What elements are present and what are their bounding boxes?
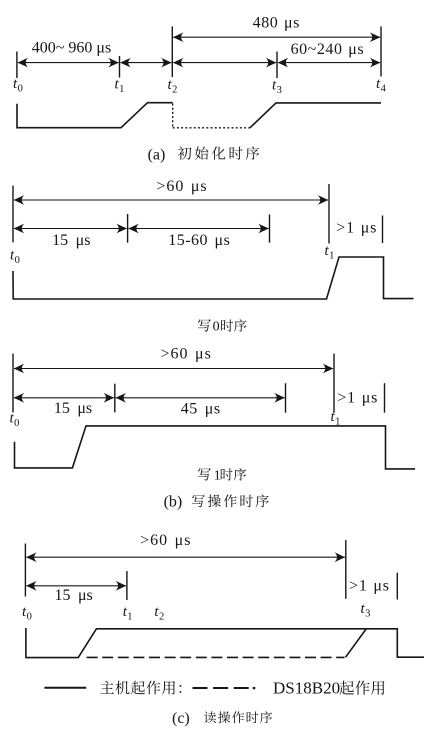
- svg-text:0: 0: [14, 418, 19, 429]
- label 15us (read): [54, 587, 92, 604]
- caption write0 chars shixu: [221, 319, 246, 331]
- arrow 15us (w1): [14, 393, 114, 403]
- tick recovery mark (read): [396, 573, 398, 600]
- svg-text:15 μs: 15 μs: [54, 400, 92, 417]
- wire read dashed DS18B20 low: [87, 656, 345, 658]
- legend solid line sample (master): [44, 687, 86, 689]
- label >60us (w1): [161, 346, 212, 363]
- label >1us (w0): [336, 220, 377, 237]
- arrow 45us (w1): [116, 393, 285, 403]
- label 400~960us (init): [32, 39, 111, 56]
- label 15-60us (w0): [168, 232, 230, 249]
- wire read waveform master (solid): [26, 628, 424, 658]
- svg-text:>60 μs: >60 μs: [156, 178, 207, 195]
- svg-text:1: 1: [214, 469, 221, 484]
- caption write0 digit 0: [213, 320, 220, 335]
- tick t3 (init): [276, 52, 278, 79]
- legend label zhuji qizuoyong: [100, 681, 181, 695]
- svg-text:60~240 μs: 60~240 μs: [291, 41, 365, 58]
- tick 45us mark (w1): [285, 383, 287, 413]
- svg-text:0: 0: [18, 84, 23, 95]
- arrow t2-t3 (init): [173, 58, 276, 68]
- svg-text:DS18B20: DS18B20: [273, 679, 340, 698]
- svg-text:4: 4: [381, 84, 387, 95]
- label 480us (init): [253, 15, 300, 32]
- tick 15us mark (w1): [114, 384, 116, 413]
- label >1us (read): [349, 578, 390, 595]
- node label t2 (read): [154, 604, 164, 623]
- label 60~240us (init): [291, 41, 365, 58]
- tick t0 (init): [16, 52, 18, 79]
- node label t0 (init): [13, 76, 23, 95]
- tick t2 (init): [171, 26, 173, 77]
- svg-text:(b): (b): [164, 494, 183, 511]
- node label t4 (init): [376, 76, 387, 95]
- tick t0 (w0): [12, 186, 14, 243]
- svg-text:>1 μs: >1 μs: [336, 220, 377, 237]
- tick t3 (read): [345, 540, 347, 599]
- arrow >60us (w0): [14, 195, 329, 205]
- arrow 60~240us t3-t4 (init): [278, 58, 381, 68]
- caption write0 char xie: [198, 319, 211, 332]
- tick 15-60us mark (w0): [269, 215, 271, 243]
- label 15us (w0): [52, 232, 90, 249]
- label 15us (w1): [54, 400, 92, 417]
- label >60us (w0): [156, 178, 207, 195]
- svg-text:(a): (a): [148, 146, 166, 163]
- svg-text:1: 1: [119, 84, 124, 95]
- tick recovery mark (w0): [382, 216, 384, 244]
- label >60us (read): [140, 532, 191, 549]
- svg-text:>1 μs: >1 μs: [349, 578, 390, 595]
- svg-text:480 μs: 480 μs: [253, 15, 300, 32]
- legend dashed line sample (DS18B20): [193, 687, 251, 689]
- caption write1 digit 1: [214, 469, 221, 484]
- tick t1 (w0): [328, 184, 330, 244]
- wire read rise at t3: [346, 629, 367, 658]
- svg-text:>60 μs: >60 μs: [161, 346, 212, 363]
- arrow 15-60us (w0): [128, 224, 268, 234]
- wire dotted fall at t2 (init): [172, 104, 174, 128]
- caption write1 char xie: [198, 468, 211, 481]
- svg-text:0: 0: [213, 320, 220, 335]
- tick t1 (init): [119, 56, 121, 78]
- node label t3 (init): [272, 78, 282, 97]
- label >1us (w1): [337, 390, 378, 407]
- svg-text:0: 0: [15, 255, 20, 266]
- svg-text:15-60 μs: 15-60 μs: [168, 232, 230, 249]
- tick t0 (w1): [12, 354, 14, 413]
- caption (b) latin: [164, 494, 183, 511]
- arrow 400~960us t0-t1 (init): [18, 58, 119, 68]
- node label t1 (init): [115, 77, 125, 96]
- legend label qizuoyong: [339, 681, 384, 695]
- svg-text:2: 2: [159, 612, 164, 623]
- arrow 480us t2-t4 (init): [173, 32, 380, 42]
- node label t3 (read): [361, 601, 371, 620]
- caption (c) latin: [172, 710, 190, 727]
- svg-text:15 μs: 15 μs: [52, 232, 90, 249]
- legend dash trailing dot: [253, 687, 256, 689]
- node label t1 (w1): [331, 409, 341, 428]
- wire write1 waveform: [15, 426, 416, 469]
- arrow 15us (read): [26, 581, 126, 591]
- tick 15us mark (w0): [127, 214, 129, 243]
- arrow t1-t2 (init): [120, 58, 171, 68]
- svg-text:0: 0: [27, 612, 32, 623]
- caption (c) chinese: [204, 711, 272, 723]
- tick t4 (init): [380, 26, 382, 76]
- tick recovery mark (w1): [384, 383, 386, 413]
- node label t1 (read): [123, 604, 133, 623]
- svg-text:400~ 960 μs: 400~ 960 μs: [32, 39, 111, 56]
- tick t1 (w1): [333, 354, 335, 413]
- svg-text:(c): (c): [172, 710, 190, 727]
- caption (b) chinese: [192, 494, 269, 507]
- node label t1 (w0): [325, 243, 335, 262]
- label 45us (w1): [181, 400, 221, 417]
- svg-text:>1 μs: >1 μs: [337, 390, 378, 407]
- svg-text:15 μs: 15 μs: [54, 587, 92, 604]
- legend label DS18B20 latin: [273, 679, 340, 698]
- svg-text:45 μs: 45 μs: [181, 400, 221, 417]
- tick t1 (read): [126, 571, 128, 600]
- wire dotted presence low (init): [173, 127, 250, 129]
- svg-text:3: 3: [277, 85, 282, 96]
- svg-text:1: 1: [329, 251, 334, 262]
- caption (a) latin: [148, 146, 166, 163]
- caption (a) chinese: [178, 146, 260, 159]
- node label t0 (w1): [10, 411, 20, 430]
- svg-text:2: 2: [172, 85, 177, 96]
- wire rise to idle (init): [250, 103, 381, 128]
- wire write0 waveform: [13, 257, 414, 299]
- svg-text:1: 1: [127, 612, 132, 623]
- svg-text:>60 μs: >60 μs: [140, 532, 191, 549]
- node label t0 (read): [22, 604, 32, 623]
- wire reset low pulse (init): [17, 103, 173, 128]
- node label t0 (w0): [10, 248, 20, 267]
- caption write1 chars shixu: [221, 468, 247, 480]
- arrow >60us (w1): [14, 364, 334, 374]
- node label t2 (init): [168, 77, 178, 96]
- tick t0 (read): [24, 544, 26, 597]
- arrow >60us (read): [26, 552, 345, 562]
- svg-text:3: 3: [365, 609, 370, 620]
- arrow 15us (w0): [14, 224, 127, 234]
